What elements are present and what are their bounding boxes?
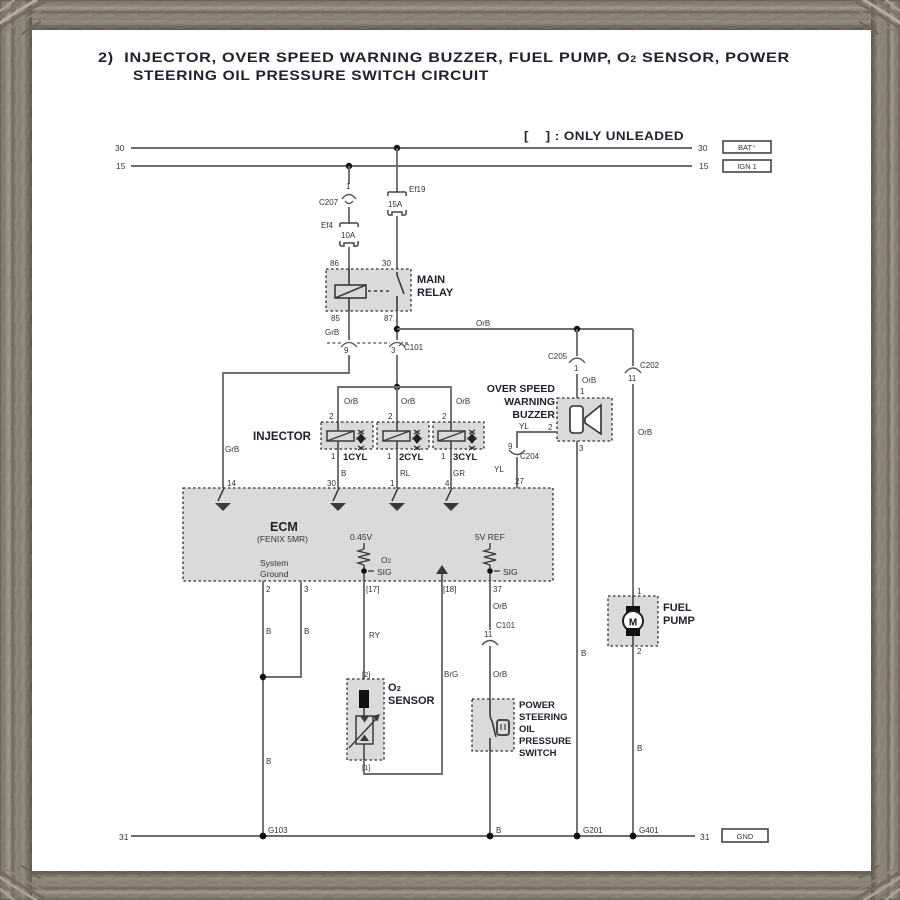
ECM ground switch pin1 <box>389 488 405 511</box>
svg-text:SWITCH: SWITCH <box>519 748 557 759</box>
wire ECM pin2 to G103 <box>262 581 264 836</box>
svg-text:YL: YL <box>519 422 529 431</box>
svg-text:[2]: [2] <box>362 670 370 679</box>
relay U main-relay box <box>326 269 411 311</box>
wire inj2 to ECM pin1 <box>396 449 398 488</box>
svg-text:C101: C101 <box>496 621 516 630</box>
svg-text:ECM: ECM <box>270 520 298 534</box>
wire buzzer to G201 <box>576 441 578 836</box>
svg-text:B: B <box>266 627 271 636</box>
svg-text:B: B <box>637 744 642 753</box>
svg-text:30: 30 <box>698 143 708 153</box>
svg-text:11: 11 <box>628 374 637 383</box>
O2 sensor box <box>347 679 384 760</box>
wire bus to 2CYL <box>396 387 398 422</box>
connector C207 <box>342 195 356 204</box>
label C101 <box>399 342 403 346</box>
wire C101 to pressure switch <box>489 646 491 699</box>
injector feed bus <box>338 387 451 422</box>
svg-text:B: B <box>581 649 586 658</box>
bottom ground bus 31 <box>131 835 695 837</box>
ground G401 <box>630 833 637 840</box>
svg-text:2) INJECTOR, OVER SPEED WARNI: 2) INJECTOR, OVER SPEED WARNING BUZZER, … <box>98 49 790 65</box>
wire OrB corner to C202 <box>632 329 634 366</box>
wire pressure switch to ground bus <box>489 751 491 836</box>
svg-text:B: B <box>304 627 309 636</box>
svg-text:B: B <box>341 469 346 478</box>
connector C101 row <box>327 343 409 348</box>
wire C205 to buzzer <box>576 374 578 398</box>
svg-text:GrB: GrB <box>225 445 239 454</box>
svg-text:C202: C202 <box>640 361 660 370</box>
svg-text:1: 1 <box>441 452 446 461</box>
wire Ef19 to relay pin30 <box>396 216 398 272</box>
wire Ef4 to relay pin86 <box>348 247 350 269</box>
ECM ground switch pin14 <box>215 488 231 511</box>
svg-text:MAIN: MAIN <box>417 274 445 286</box>
svg-text:SIG: SIG <box>503 567 518 577</box>
svg-text:1: 1 <box>331 452 336 461</box>
SCHEMATIC <box>98 49 790 143</box>
ground point B <box>487 833 494 840</box>
svg-text:O2: O2 <box>388 682 401 694</box>
junction 5V sig <box>487 568 493 574</box>
svg-text:14: 14 <box>227 479 236 488</box>
fuel pump box <box>608 596 658 646</box>
svg-text:11: 11 <box>484 630 493 639</box>
wire C207 to Ef4 <box>348 207 350 224</box>
svg-text:BUZZER: BUZZER <box>512 409 555 421</box>
svg-text:1: 1 <box>390 479 395 488</box>
svg-text:10A: 10A <box>341 231 356 240</box>
svg-text:G103: G103 <box>268 826 288 835</box>
input arrow pin18 <box>436 565 448 581</box>
frame corner folds top-right <box>856 0 900 34</box>
svg-text:OrB: OrB <box>344 397 358 406</box>
wire line15 to C207 <box>348 166 350 184</box>
frame right band <box>871 0 900 900</box>
svg-text:M: M <box>629 618 637 629</box>
svg-text:OrB: OrB <box>456 397 470 406</box>
wire C101 pin9 to ECM pin14 <box>223 355 349 488</box>
svg-text:INJECTOR: INJECTOR <box>253 431 312 443</box>
svg-text:27: 27 <box>515 477 524 486</box>
svg-text:30: 30 <box>382 259 391 268</box>
junction O2 sig <box>361 568 367 574</box>
ECM ground switch pin4 <box>443 488 459 511</box>
frame bottom band <box>0 871 900 900</box>
svg-text:1: 1 <box>574 364 579 373</box>
wire C202 to fuel pump <box>632 384 634 596</box>
buzzer box <box>557 398 612 441</box>
junction injector bus <box>394 384 400 390</box>
label OVER SPEED WARNING BUZZER <box>487 383 556 421</box>
svg-text:(FENIX 5MR): (FENIX 5MR) <box>257 534 308 544</box>
svg-text:RELAY: RELAY <box>417 287 454 299</box>
label POWER STEERING OIL PRESSURE SWITCH <box>519 700 571 759</box>
svg-text:3: 3 <box>304 585 309 594</box>
wire O2 sensor to ECM pin18 <box>364 581 442 774</box>
ECM box <box>183 488 553 581</box>
injector 2CYL box <box>377 422 429 450</box>
svg-text:System: System <box>260 558 288 568</box>
label O2 SENSOR <box>388 682 435 707</box>
wire relay87 to C101 <box>396 311 398 340</box>
frame left band <box>0 0 32 900</box>
svg-text:STEERING OIL PRESSURE SWITCH C: STEERING OIL PRESSURE SWITCH CIRCUIT <box>133 67 489 83</box>
frame corner folds bottom-right <box>856 866 900 900</box>
frame corner folds top-left <box>0 0 44 34</box>
injector 1CYL box <box>321 422 373 450</box>
svg-text:RL: RL <box>400 469 411 478</box>
O2 sensor cell <box>349 708 380 760</box>
junction ground join <box>260 674 266 680</box>
svg-text:9: 9 <box>508 442 513 451</box>
fuel pump motor M1 <box>623 596 643 646</box>
svg-text:2: 2 <box>548 423 553 432</box>
junction OrB / C205 <box>574 326 580 332</box>
label FUEL PUMP <box>663 602 695 627</box>
wire relay85 to C101 <box>348 311 350 340</box>
svg-text:RY: RY <box>369 631 381 640</box>
wire C101 pin3 to injector bus <box>396 355 398 387</box>
wire C204 to ECM pin27 <box>516 457 518 488</box>
svg-text:BrG: BrG <box>444 670 458 679</box>
svg-text:1: 1 <box>637 587 642 596</box>
svg-text:POWER: POWER <box>519 700 555 711</box>
svg-text:1CYL: 1CYL <box>343 452 367 463</box>
tick O2 sig <box>368 570 374 572</box>
svg-text:[ ] : ONLY UNLEADED: [ ] : ONLY UNLEADED <box>524 129 684 143</box>
svg-text:STEERING: STEERING <box>519 712 568 723</box>
svg-text:3: 3 <box>391 346 396 355</box>
svg-text:31: 31 <box>700 832 710 842</box>
svg-text:85: 85 <box>331 314 340 323</box>
svg-text:[18]: [18] <box>443 585 456 594</box>
pressure switch contact <box>490 699 496 751</box>
wire line30 to Ef19 <box>396 148 398 192</box>
relay coil <box>335 269 366 311</box>
connector C204 <box>509 450 525 455</box>
svg-text:GND: GND <box>737 832 754 841</box>
pressure switch sensor symbol <box>497 720 509 735</box>
svg-text:30: 30 <box>115 143 125 153</box>
svg-text:86: 86 <box>330 259 339 268</box>
wire inj3 to ECM pin4 <box>450 449 452 488</box>
svg-text:9: 9 <box>344 346 349 355</box>
svg-text:GrB: GrB <box>325 328 339 337</box>
wire OrB branch to right <box>397 328 633 330</box>
relay link dashed <box>368 290 392 292</box>
svg-text:BAT⁺: BAT⁺ <box>738 143 756 152</box>
svg-text:2: 2 <box>637 647 642 656</box>
wire ECM pin17 to O2 sensor <box>363 581 365 679</box>
svg-text:WARNING: WARNING <box>504 396 555 408</box>
svg-text:15: 15 <box>116 161 126 171</box>
svg-text:SENSOR: SENSOR <box>388 695 435 707</box>
svg-text:2: 2 <box>329 412 334 421</box>
pressure switch box <box>472 699 514 751</box>
junction line30 / Ef19 wire <box>394 145 400 151</box>
svg-text:B: B <box>496 826 501 835</box>
svg-text:Ground: Ground <box>260 569 289 579</box>
svg-text:C204: C204 <box>520 452 540 461</box>
svg-text:87: 87 <box>384 314 393 323</box>
wire fuel pump to G401 <box>632 646 634 836</box>
wire ECM pin37 to C101 <box>489 581 491 630</box>
svg-text:37: 37 <box>493 585 502 594</box>
buzzer speaker symbol <box>570 405 601 434</box>
BAT+ box <box>723 141 771 153</box>
ground G103 <box>260 833 267 840</box>
svg-text:15A: 15A <box>388 200 403 209</box>
svg-text:OrB: OrB <box>582 376 596 385</box>
svg-text:OVER SPEED: OVER SPEED <box>487 383 556 395</box>
svg-text:4: 4 <box>445 479 450 488</box>
tick 5V sig <box>494 570 500 572</box>
fuse Ef19 <box>388 192 406 215</box>
resistor 0.45V pull-up <box>358 543 370 581</box>
connector C205 <box>569 358 585 363</box>
O2 sensor heater element <box>359 690 369 708</box>
label O2 SIG <box>377 555 392 577</box>
svg-text:GR: GR <box>453 469 465 478</box>
svg-text:1: 1 <box>387 452 392 461</box>
svg-text:Ef19: Ef19 <box>409 185 426 194</box>
svg-text:C101: C101 <box>404 343 424 352</box>
svg-text:1: 1 <box>346 182 351 191</box>
svg-text:Ef4: Ef4 <box>321 221 334 230</box>
svg-text:FUEL: FUEL <box>663 602 692 614</box>
svg-text:IGN 1: IGN 1 <box>737 162 757 171</box>
label System Ground <box>260 558 289 579</box>
svg-text:YL: YL <box>494 465 504 474</box>
svg-text:OrB: OrB <box>476 319 490 328</box>
junction 87/OrB branch <box>394 326 400 332</box>
GND box <box>722 829 768 842</box>
wire buzzer pin2 YL <box>517 432 557 448</box>
svg-text:C205: C205 <box>548 352 568 361</box>
IGN 1 box <box>723 160 771 172</box>
connector C202 <box>625 368 641 373</box>
svg-text:31: 31 <box>119 832 129 842</box>
svg-text:SIG: SIG <box>377 567 392 577</box>
svg-text:2: 2 <box>266 585 271 594</box>
ground G201 <box>574 833 581 840</box>
resistor 5V REF pull-up <box>484 543 496 581</box>
svg-text:[17]: [17] <box>366 585 379 594</box>
wire inj1 to ECM pin30 <box>337 449 339 488</box>
svg-text:OIL: OIL <box>519 724 535 735</box>
svg-text:0.45V: 0.45V <box>350 532 373 542</box>
svg-text:B: B <box>266 757 271 766</box>
svg-text:30: 30 <box>327 479 336 488</box>
ECM ground switch pin30 <box>330 488 346 511</box>
svg-text:2: 2 <box>442 412 447 421</box>
relay switch blade <box>397 272 404 311</box>
svg-text:G401: G401 <box>639 826 659 835</box>
svg-text:5V REF: 5V REF <box>475 532 505 542</box>
svg-text:OrB: OrB <box>401 397 415 406</box>
junction line15 / C207 wire <box>346 163 352 169</box>
svg-text:PUMP: PUMP <box>663 615 695 627</box>
label MAIN RELAY <box>417 274 454 299</box>
svg-text:G201: G201 <box>583 826 603 835</box>
fuse Ef4 <box>340 223 358 246</box>
svg-text:PRESSURE: PRESSURE <box>519 736 571 747</box>
svg-text:2: 2 <box>388 412 393 421</box>
svg-text:15: 15 <box>699 161 709 171</box>
wire ECM pin3 joins pin2 <box>263 581 301 677</box>
svg-text:OrB: OrB <box>493 602 507 611</box>
svg-text:3CYL: 3CYL <box>453 452 477 463</box>
svg-text:OrB: OrB <box>493 670 507 679</box>
frame corner folds bottom-left <box>0 866 44 900</box>
svg-text:OrB: OrB <box>638 428 652 437</box>
connector C101 pin11 <box>482 641 498 646</box>
svg-text:C207: C207 <box>319 198 339 207</box>
bus line 30 <box>131 147 692 149</box>
frame top band <box>0 0 900 30</box>
wire C205 drop <box>576 329 578 356</box>
bus line 15 <box>131 165 692 167</box>
svg-text:1: 1 <box>580 387 585 396</box>
injector 3CYL box <box>433 422 484 450</box>
svg-text:2CYL: 2CYL <box>399 452 423 463</box>
svg-text:3: 3 <box>579 444 584 453</box>
